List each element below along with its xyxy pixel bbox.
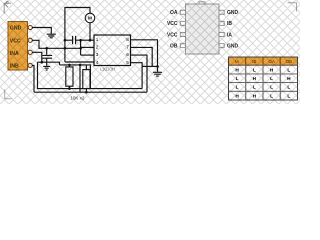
wire gnd tie <box>142 65 157 67</box>
wire OB rail <box>65 8 94 63</box>
wire VCC <box>32 40 81 48</box>
wire pin6 <box>131 55 148 92</box>
capacitor C2 <box>73 36 76 44</box>
terminal pins <box>28 25 32 29</box>
motor M1 stem <box>89 23 91 40</box>
pin labels <box>167 10 239 49</box>
junction dots <box>41 39 159 94</box>
wire riser <box>79 65 81 92</box>
motor M1 <box>85 13 95 23</box>
grid overlay <box>0 0 320 104</box>
body <box>186 4 220 54</box>
resistor R2 leads <box>85 65 87 92</box>
wire node row A <box>38 62 60 65</box>
header cells <box>229 57 298 65</box>
ground GND3 <box>153 72 162 76</box>
truth table <box>229 57 298 100</box>
wire left rail inner <box>38 62 143 88</box>
wire pin3 stub <box>81 54 94 56</box>
wire VCC jumper <box>80 40 82 55</box>
wire pin2 stub <box>81 46 94 48</box>
pins left <box>180 10 224 47</box>
corner mark top-right <box>288 3 297 12</box>
resistor R1 <box>66 67 73 86</box>
ground GND2 <box>43 66 50 70</box>
corner mark bottom-left <box>5 90 12 99</box>
capacitor C1 <box>42 48 52 66</box>
data cells <box>229 65 298 100</box>
wire bottom bus outer <box>34 91 147 93</box>
IC U1 box <box>94 35 131 71</box>
wire INB <box>32 65 34 92</box>
wire pin8 to ground <box>131 40 158 72</box>
pins right <box>219 10 224 14</box>
DIP package U2 <box>167 2 239 54</box>
wire OA row <box>65 39 94 41</box>
wires <box>32 8 162 93</box>
resistor R1 leads <box>68 65 70 89</box>
corner marker (top-left gray glyph) <box>4 1 11 13</box>
wire GND <box>32 28 51 34</box>
wire pin5 <box>131 63 143 89</box>
notch <box>199 2 205 6</box>
wire node row B <box>60 65 91 89</box>
wire INA <box>32 52 42 62</box>
wire pin7 <box>131 47 153 66</box>
resistor R2 <box>83 70 90 89</box>
ground GND1 <box>47 34 56 38</box>
connector J1 (orange 4-pin header) <box>8 22 32 71</box>
